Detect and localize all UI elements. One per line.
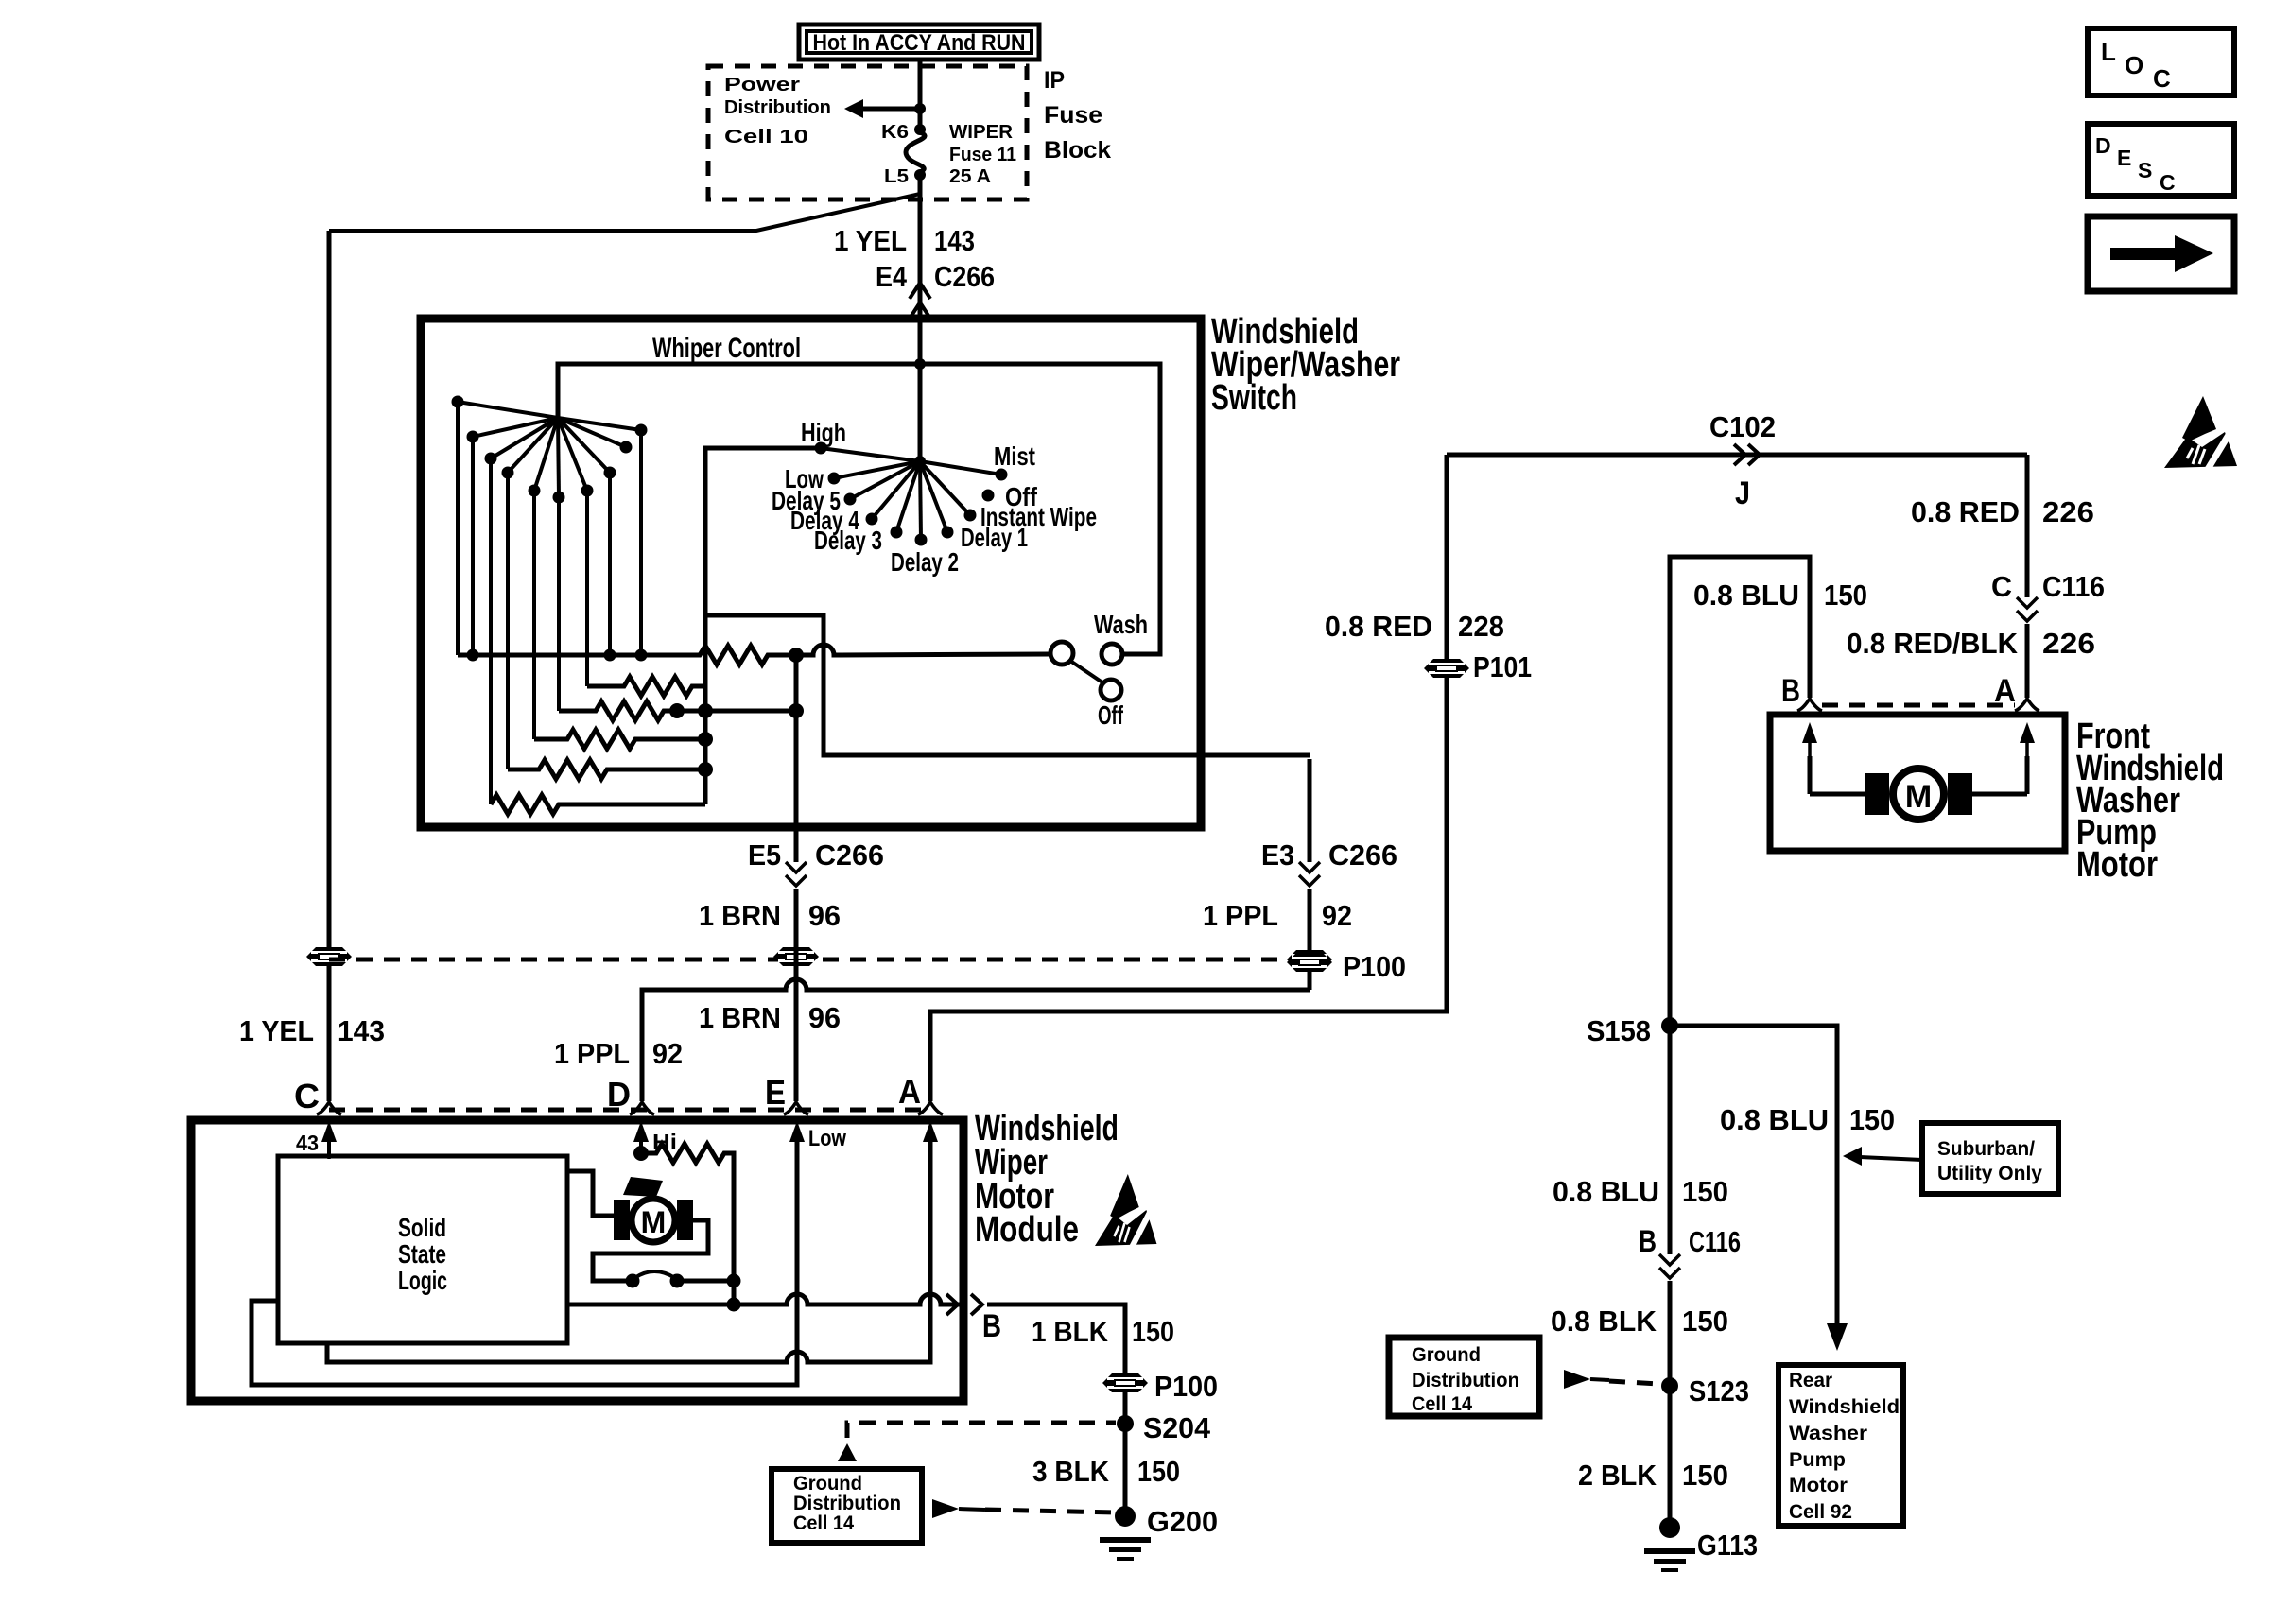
svg-text:IP: IP bbox=[1044, 67, 1065, 94]
svg-text:Hot In ACCY And RUN: Hot In ACCY And RUN bbox=[813, 30, 1026, 56]
svg-text:Wash: Wash bbox=[1094, 610, 1148, 639]
svg-text:Power: Power bbox=[724, 75, 800, 95]
svg-text:0.8 BLK: 0.8 BLK bbox=[1551, 1304, 1657, 1338]
svg-text:S: S bbox=[2138, 158, 2152, 182]
svg-text:A: A bbox=[898, 1072, 921, 1111]
svg-text:E: E bbox=[2117, 146, 2131, 170]
svg-text:150: 150 bbox=[1682, 1304, 1728, 1338]
svg-text:Off: Off bbox=[1098, 700, 1123, 730]
svg-text:0.8 BLU: 0.8 BLU bbox=[1720, 1103, 1829, 1136]
svg-text:Washer: Washer bbox=[1789, 1423, 1867, 1444]
svg-text:G200: G200 bbox=[1147, 1505, 1218, 1538]
svg-text:Cell 14: Cell 14 bbox=[1412, 1393, 1472, 1415]
svg-text:C102: C102 bbox=[1709, 410, 1776, 443]
svg-text:1 PPL: 1 PPL bbox=[1203, 899, 1278, 932]
svg-text:Delay 2: Delay 2 bbox=[891, 547, 959, 577]
svg-text:B: B bbox=[1639, 1224, 1657, 1258]
svg-text:G113: G113 bbox=[1697, 1529, 1758, 1562]
svg-text:C: C bbox=[294, 1077, 320, 1115]
svg-text:E5: E5 bbox=[748, 838, 781, 872]
svg-text:C266: C266 bbox=[1328, 838, 1397, 872]
svg-text:150: 150 bbox=[1137, 1455, 1180, 1488]
svg-text:150: 150 bbox=[1132, 1315, 1174, 1348]
svg-text:C266: C266 bbox=[815, 838, 884, 872]
svg-text:Logic: Logic bbox=[398, 1266, 447, 1295]
svg-text:Ground: Ground bbox=[1412, 1344, 1481, 1366]
svg-text:Pump: Pump bbox=[1789, 1449, 1846, 1471]
svg-text:150: 150 bbox=[1824, 579, 1867, 612]
svg-text:Switch: Switch bbox=[1211, 378, 1297, 418]
svg-text:Suburban/: Suburban/ bbox=[1937, 1138, 2035, 1160]
svg-text:O: O bbox=[2125, 51, 2143, 79]
svg-text:C116: C116 bbox=[1689, 1225, 1741, 1258]
svg-text:228: 228 bbox=[1458, 610, 1504, 643]
svg-text:M: M bbox=[1905, 779, 1932, 815]
svg-text:S123: S123 bbox=[1689, 1374, 1749, 1408]
svg-text:WIPER: WIPER bbox=[949, 122, 1014, 143]
svg-text:150: 150 bbox=[1849, 1103, 1895, 1136]
svg-text:Delay 3: Delay 3 bbox=[814, 526, 882, 555]
svg-text:96: 96 bbox=[808, 899, 841, 932]
svg-text:S158: S158 bbox=[1587, 1014, 1651, 1047]
svg-text:1 BRN: 1 BRN bbox=[699, 1001, 781, 1034]
svg-text:P100: P100 bbox=[1343, 950, 1406, 983]
svg-text:Whiper Control: Whiper Control bbox=[652, 333, 801, 364]
svg-text:C: C bbox=[2160, 170, 2176, 195]
svg-text:Windshield: Windshield bbox=[1789, 1396, 1900, 1418]
svg-text:92: 92 bbox=[1322, 899, 1352, 932]
svg-text:0.8 BLU: 0.8 BLU bbox=[1553, 1175, 1659, 1208]
svg-text:143: 143 bbox=[934, 224, 975, 257]
svg-text:0.8 RED/BLK: 0.8 RED/BLK bbox=[1847, 627, 2019, 660]
svg-text:96: 96 bbox=[808, 1001, 841, 1034]
svg-text:43: 43 bbox=[296, 1131, 319, 1155]
svg-text:3 BLK: 3 BLK bbox=[1032, 1455, 1110, 1488]
svg-text:Ground: Ground bbox=[793, 1473, 862, 1494]
svg-text:226: 226 bbox=[2042, 495, 2094, 528]
svg-text:Mist: Mist bbox=[994, 441, 1035, 471]
svg-text:C: C bbox=[2153, 64, 2171, 93]
svg-text:Motor: Motor bbox=[1789, 1475, 1848, 1496]
svg-text:Fuse: Fuse bbox=[1044, 102, 1102, 129]
svg-text:1 PPL: 1 PPL bbox=[554, 1037, 630, 1070]
svg-text:Block: Block bbox=[1044, 137, 1111, 164]
svg-text:B: B bbox=[1781, 673, 1800, 709]
svg-text:Utility Only: Utility Only bbox=[1937, 1163, 2042, 1184]
svg-text:Module: Module bbox=[975, 1210, 1079, 1250]
svg-text:143: 143 bbox=[338, 1014, 385, 1047]
svg-text:1 YEL: 1 YEL bbox=[834, 224, 907, 257]
svg-text:Low: Low bbox=[808, 1126, 846, 1151]
svg-text:S204: S204 bbox=[1143, 1411, 1211, 1444]
svg-text:C266: C266 bbox=[934, 260, 995, 293]
svg-text:0.8 BLU: 0.8 BLU bbox=[1693, 579, 1799, 612]
svg-text:25 A: 25 A bbox=[949, 166, 991, 187]
svg-text:150: 150 bbox=[1682, 1459, 1728, 1492]
svg-text:226: 226 bbox=[2042, 627, 2095, 660]
svg-text:2 BLK: 2 BLK bbox=[1578, 1459, 1657, 1492]
svg-text:D: D bbox=[2095, 133, 2111, 158]
svg-text:K6: K6 bbox=[881, 122, 909, 143]
svg-text:1 BLK: 1 BLK bbox=[1032, 1315, 1109, 1348]
svg-text:C: C bbox=[1991, 570, 2012, 603]
svg-text:Fuse 11: Fuse 11 bbox=[949, 145, 1016, 165]
svg-text:M: M bbox=[641, 1205, 667, 1239]
svg-text:L5: L5 bbox=[884, 166, 909, 187]
svg-text:Distribution: Distribution bbox=[724, 97, 831, 118]
svg-text:1 BRN: 1 BRN bbox=[699, 899, 781, 932]
svg-text:Distribution: Distribution bbox=[793, 1493, 901, 1514]
svg-text:Rear: Rear bbox=[1789, 1370, 1832, 1391]
svg-text:150: 150 bbox=[1682, 1175, 1728, 1208]
svg-text:L: L bbox=[2101, 38, 2116, 66]
svg-text:E4: E4 bbox=[876, 260, 908, 293]
svg-text:0.8 RED: 0.8 RED bbox=[1911, 495, 2020, 528]
svg-text:E3: E3 bbox=[1261, 838, 1294, 872]
svg-text:High: High bbox=[801, 418, 846, 447]
svg-text:Solid: Solid bbox=[398, 1213, 446, 1242]
svg-text:J: J bbox=[1735, 475, 1750, 511]
svg-text:Distribution: Distribution bbox=[1412, 1370, 1519, 1391]
svg-text:P100: P100 bbox=[1154, 1370, 1218, 1403]
svg-text:92: 92 bbox=[652, 1037, 683, 1070]
svg-text:1 YEL: 1 YEL bbox=[239, 1014, 314, 1047]
svg-text:C116: C116 bbox=[2042, 570, 2105, 603]
svg-text:Cell 14: Cell 14 bbox=[793, 1512, 854, 1534]
svg-text:B: B bbox=[982, 1308, 1001, 1344]
svg-text:Delay 1: Delay 1 bbox=[961, 523, 1028, 552]
svg-text:0.8 RED: 0.8 RED bbox=[1325, 610, 1432, 643]
svg-text:Cell 92: Cell 92 bbox=[1789, 1501, 1852, 1523]
svg-text:P101: P101 bbox=[1473, 650, 1532, 683]
svg-text:Motor: Motor bbox=[2076, 845, 2158, 885]
svg-text:E: E bbox=[765, 1073, 786, 1112]
svg-text:State: State bbox=[398, 1239, 446, 1269]
svg-text:Cell 10: Cell 10 bbox=[724, 127, 808, 147]
